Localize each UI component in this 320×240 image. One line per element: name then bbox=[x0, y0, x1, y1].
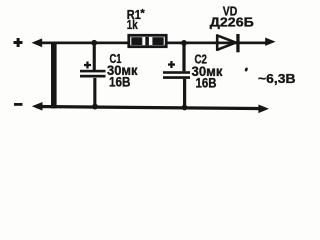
diode VD cathode bar bbox=[236, 34, 239, 52]
svg-text:16В: 16В bbox=[196, 74, 217, 90]
input arrow bottom (left-pointing) bbox=[32, 102, 43, 111]
stray mark near output bbox=[244, 67, 248, 72]
node junction dot top of C2 bbox=[181, 40, 187, 46]
capacitor C1 bottom plate bbox=[80, 75, 106, 78]
svg-text:~6,3В: ~6,3В bbox=[258, 71, 296, 86]
capacitor C2 bottom lead bbox=[183, 79, 186, 108]
capacitor C1 polarity plus bbox=[84, 62, 91, 69]
capacitor C1 top lead bbox=[93, 43, 96, 70]
capacitor C2 polarity plus bbox=[168, 61, 175, 68]
capacitor C2 top plate bbox=[163, 71, 190, 74]
capacitor C2 top lead bbox=[182, 43, 185, 71]
svg-text:1k: 1k bbox=[127, 17, 139, 32]
svg-text:16В: 16В bbox=[109, 74, 131, 90]
output arrow bottom (right-pointing) bbox=[258, 105, 269, 114]
wire thick vertical link bar bbox=[51, 42, 57, 109]
terminal label - (negative input) bbox=[14, 103, 23, 106]
output arrow top (right-pointing) bbox=[265, 38, 275, 46]
terminal label + (positive input) bbox=[14, 38, 23, 47]
wire bottom rail bbox=[36, 105, 263, 110]
svg-text:*: * bbox=[140, 7, 145, 19]
diode VD triangle anode bbox=[217, 35, 236, 49]
capacitor C1 bottom lead bbox=[93, 78, 96, 107]
resistor R1 body bbox=[129, 35, 166, 46]
wire top rail bbox=[38, 42, 267, 45]
node junction dot bottom of C1 bbox=[92, 104, 98, 110]
node junction dot top of C1 bbox=[91, 40, 97, 46]
node junction dot bottom of C2 bbox=[182, 105, 188, 111]
input arrow top (left-pointing) bbox=[32, 38, 43, 47]
svg-text:Д226Б: Д226Б bbox=[210, 15, 254, 30]
capacitor C1 top plate bbox=[80, 70, 106, 73]
capacitor C2 bottom plate bbox=[163, 76, 190, 79]
